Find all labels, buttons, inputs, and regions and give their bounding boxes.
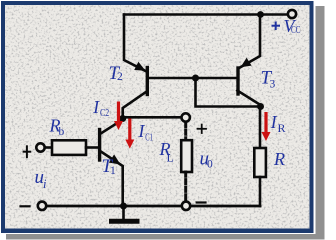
node emitter/ground junction — [120, 203, 127, 210]
svg-text:3: 3 — [270, 79, 276, 91]
label - (input) — [21, 205, 30, 207]
node T3 emitter / rail junction — [257, 11, 264, 18]
svg-text:I: I — [138, 121, 146, 141]
svg-text:b: b — [59, 126, 65, 138]
power terminal +VCC — [288, 10, 296, 18]
svg-text:1: 1 — [110, 165, 116, 177]
label - (output u0) — [197, 201, 206, 203]
wire Rb to T1 base — [86, 146, 99, 149]
ground bar — [112, 219, 138, 224]
label +VCC — [272, 22, 281, 31]
label + (input) — [24, 146, 31, 157]
resistor R — [254, 148, 266, 177]
node base junction — [192, 75, 199, 82]
svg-text:C2: C2 — [100, 108, 109, 119]
svg-text:R: R — [278, 121, 286, 135]
transistor T2 bar — [146, 68, 149, 95]
resistor Rb — [52, 140, 86, 155]
wire input to Rb — [45, 146, 52, 149]
svg-text:2: 2 — [117, 71, 123, 83]
svg-text:CC: CC — [291, 25, 301, 36]
terminal RL top — [182, 113, 190, 121]
node T3 collector junction — [257, 103, 264, 110]
ground stub — [122, 206, 125, 219]
wire T3 collector to resistor R — [259, 107, 262, 149]
current arrow IC1 — [125, 119, 134, 149]
svg-text:L: L — [167, 151, 174, 165]
wire output node to RL terminal — [124, 116, 182, 119]
transistor T1 collector lead — [101, 120, 123, 134]
terminal output bottom — [182, 202, 190, 210]
label + (output u0) — [198, 125, 207, 133]
wire top supply rail — [124, 13, 289, 16]
input terminal bottom — [38, 202, 46, 210]
wire dashed RL upper lead — [184, 123, 187, 141]
svg-text:C1: C1 — [145, 133, 153, 144]
current arrow IR — [262, 112, 271, 141]
svg-text:R: R — [273, 149, 285, 169]
svg-text:0: 0 — [207, 159, 213, 171]
wire resistor R to bottom rail — [259, 177, 262, 206]
transistor T3 (PNP) emitter lead — [240, 15, 260, 68]
transistor T3 bar — [236, 68, 239, 94]
input terminal top — [36, 143, 44, 151]
current arrow IC2 — [114, 102, 123, 131]
wire T2 base to T3 base — [148, 77, 236, 80]
wire dashed RL lower lead — [184, 172, 187, 201]
transistor T3 emitter arrowhead — [241, 58, 252, 68]
transistor T2 (PNP) emitter lead — [124, 15, 146, 72]
transistor T1 emitter lead — [101, 152, 123, 207]
node output junction (T1/T2 collectors) — [119, 115, 126, 122]
transistor T2 collector lead — [123, 91, 148, 119]
svg-text:I: I — [92, 97, 100, 117]
svg-text:i: i — [43, 177, 47, 191]
transistor T3 collector lead — [237, 91, 260, 106]
transistor T2 emitter arrowhead — [134, 62, 145, 71]
transistor T1 emitter arrowhead — [109, 154, 121, 164]
wire mirror link (base junction down to T3 collector node) — [196, 78, 261, 107]
resistor RL — [181, 140, 192, 172]
wire bottom rail — [46, 205, 260, 208]
transistor T1 bar — [98, 130, 101, 161]
